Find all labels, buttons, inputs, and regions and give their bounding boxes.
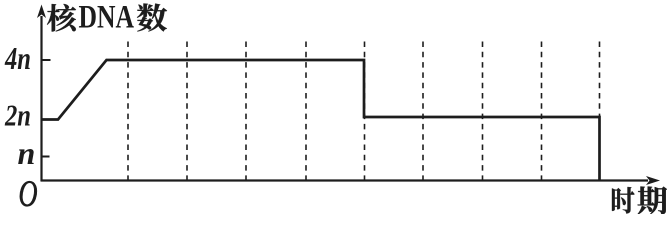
svg-text:4n: 4n (4, 40, 31, 76)
svg-text:O: O (19, 174, 38, 214)
svg-text:DNA: DNA (79, 0, 135, 36)
svg-text:n: n (18, 135, 36, 171)
svg-text:2n: 2n (4, 98, 31, 133)
